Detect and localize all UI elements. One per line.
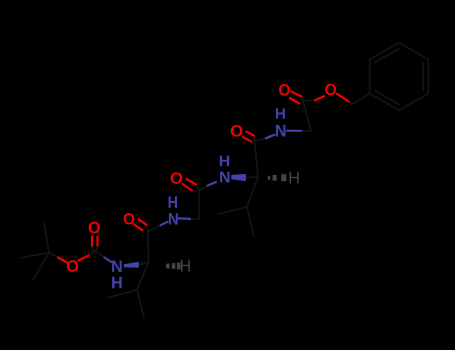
amide2 C3=O3 double bond (183, 179, 196, 191)
benzene ring (370, 43, 429, 111)
H1 stereo hydrogen on C2 (181, 260, 190, 272)
wire C3-N3 dark half (196, 185, 208, 192)
wire O1-Cc red half (79, 256, 89, 261)
wedge N3-C3a (blue solid wedge) (231, 174, 246, 181)
O4 amide2 oxygen (171, 172, 183, 183)
wire C5-O6 red half (315, 96, 324, 100)
N2 H label (169, 196, 177, 207)
N3 amide nitrogen (220, 172, 229, 183)
wire C2a-C3 (198, 191, 200, 219)
N2 amide nitrogen (169, 213, 178, 224)
wire C4-N4 dark half (254, 136, 266, 141)
ester C5=O5 double bond (290, 92, 302, 104)
wire C3-N3 blue half (208, 182, 217, 186)
O6 ester carbonyl oxygen (279, 84, 290, 95)
O5 amide3 oxygen (231, 125, 243, 137)
wire tBu-O1 red half (58, 258, 67, 263)
tert-butyl C(CH3)3 (20, 223, 58, 280)
wedge N1-C1a (blue solid wedge) (124, 262, 139, 268)
red bonds (58, 92, 349, 263)
N4 amide nitrogen (276, 125, 285, 137)
amide3 C4=O4 double bond (243, 132, 254, 142)
N3 H label (220, 156, 229, 167)
wire N4-C4a dark half (301, 130, 311, 132)
H2 stereo hydrogen on C8 (290, 172, 299, 183)
O3 amide1 oxygen (124, 213, 135, 224)
wire C1a-C2 (147, 232, 150, 263)
hash wedge C3a-H2 (gray) (268, 174, 287, 181)
O2 boc carbonyl oxygen (89, 222, 100, 234)
N4 H label (276, 108, 285, 118)
carbamate C=O double bond (92, 237, 98, 246)
wire N2-C2a dark half (190, 218, 199, 220)
wire N3-C3a dark half (246, 176, 259, 179)
hash wedge C1a-H1 (gray) (166, 263, 180, 270)
wire N1-C1a dark half (139, 262, 149, 264)
carbamate C half-bonds (89, 246, 105, 258)
N1 H label (112, 277, 121, 288)
wire C3a-C4 (255, 141, 259, 177)
wire O6-CH2 dark part (349, 101, 354, 104)
blue bonds (105, 131, 302, 262)
wire N4-C4a blue half (287, 130, 301, 132)
O1 boc ester oxygen (67, 260, 78, 272)
N1 carbamate nitrogen (112, 261, 121, 272)
O7 ester oxygen (325, 84, 336, 95)
wire C2-N2 blue half (161, 222, 168, 226)
wire C4a-C5 (303, 101, 311, 131)
wire CH2-phenyl (353, 94, 370, 105)
wire C5-O6 dark half (301, 97, 315, 101)
skeleton (dark) (20, 43, 428, 319)
valine side chain 2 (218, 177, 258, 237)
wire C4-N4 blue half (266, 135, 275, 139)
wire O6-CH2 red half (337, 94, 349, 102)
wire N2-C2a blue half (179, 217, 191, 220)
amide1 C2=O2 double bond (134, 219, 147, 230)
valine side chain 1 (108, 262, 149, 318)
wire C2-N2 dark half (147, 225, 161, 232)
wire Cc-N1 blue half (105, 258, 112, 262)
